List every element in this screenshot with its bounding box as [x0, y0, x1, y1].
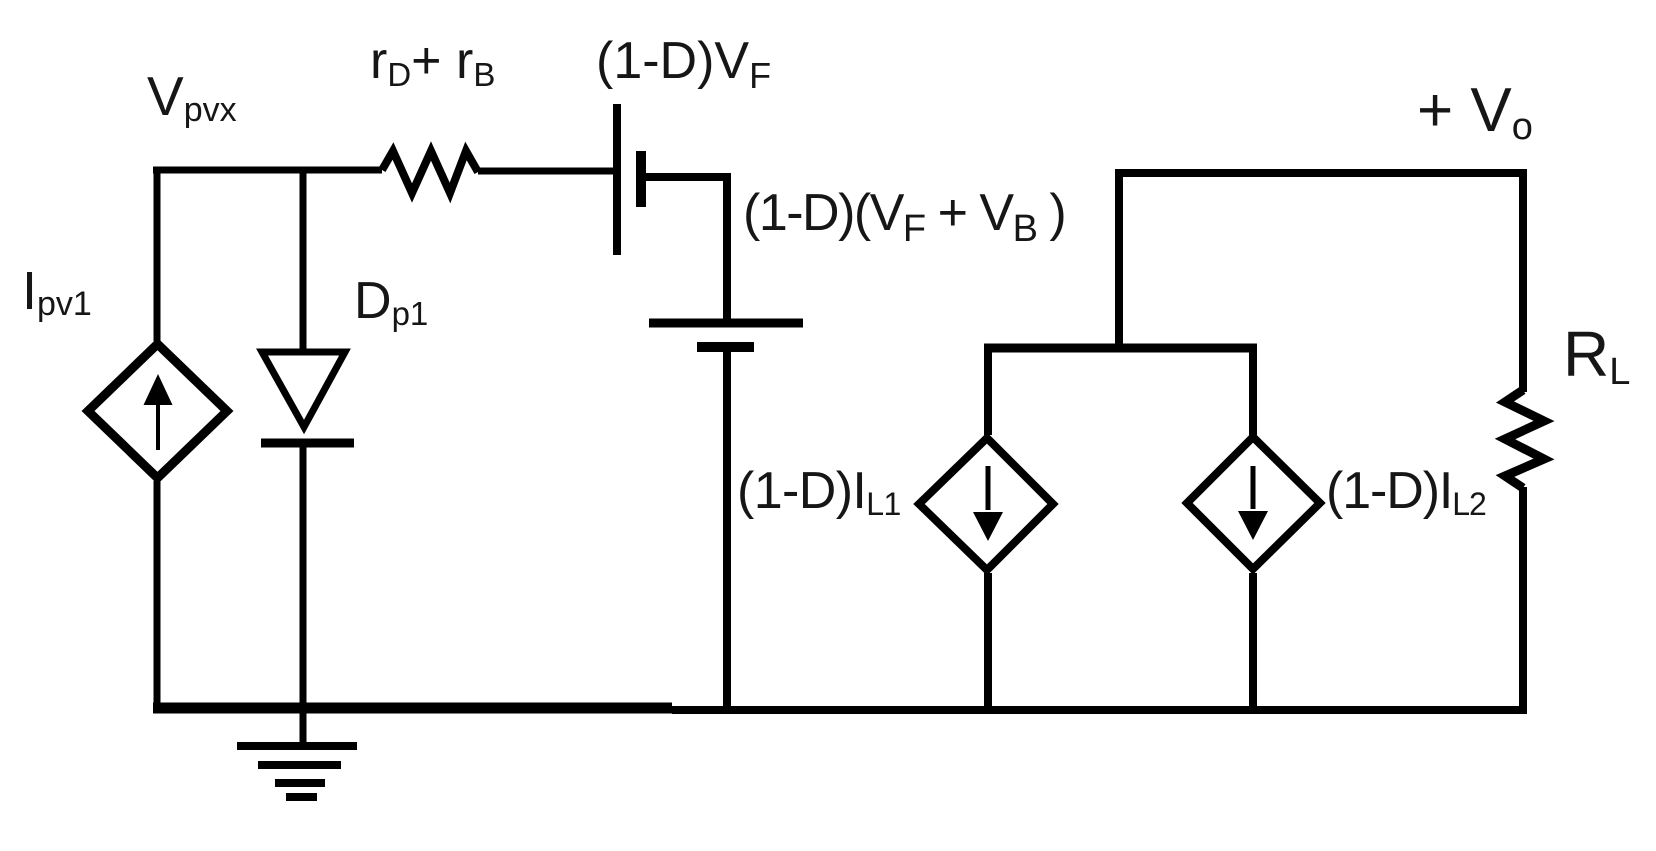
- battery (1-D)(VF+VB) long plate: [649, 319, 803, 328]
- current source Ipv1 (diamond): [88, 344, 227, 478]
- wire bridge: [984, 344, 1257, 353]
- diode Dp1 triangle: [262, 352, 345, 427]
- wire right vertical upper: [1519, 169, 1527, 392]
- diode Dp1 cathode bar: [261, 439, 354, 448]
- wire diode branch upper: [300, 167, 307, 352]
- wire diode branch lower: [300, 443, 307, 711]
- wire top-left rail: [153, 167, 382, 174]
- battery (1-D)VF short plate: [636, 151, 646, 207]
- wire below diamond 1: [984, 573, 992, 712]
- wire corner down: [723, 177, 731, 323]
- arrow of IL1 (down): [986, 466, 991, 510]
- wire battery 2 down to bottom rail: [723, 347, 731, 712]
- battery (1-D)VF long plate: [613, 104, 621, 255]
- arrow of IL2 (down): [1251, 466, 1256, 509]
- wire right branch to diamond: [1249, 348, 1257, 435]
- arrow of Ipv1 (up): [156, 402, 160, 450]
- ground bar 1: [237, 742, 357, 750]
- battery (1-D)(VF+VB) short plate: [697, 342, 754, 352]
- ground bar 4: [286, 793, 317, 801]
- ground bar 2: [258, 761, 341, 769]
- load resistor RL zigzag: [1505, 390, 1544, 488]
- ground stem: [300, 709, 307, 746]
- wire right vertical lower: [1519, 487, 1527, 713]
- wire top-right rail: [1115, 169, 1527, 177]
- wire left vertical lower: [154, 481, 161, 711]
- wire resistor to battery: [478, 168, 614, 175]
- wire center vertical from top rail: [1115, 173, 1123, 348]
- wire below diamond 2: [1249, 573, 1257, 712]
- wire left vertical upper: [154, 167, 161, 341]
- wire left branch to diamond: [984, 348, 992, 435]
- bottom rail left segment: [153, 703, 672, 714]
- wire battery to corner: [641, 173, 731, 181]
- bottom rail right segment: [672, 706, 1527, 714]
- current source (1-D)IL1 (diamond): [919, 438, 1053, 570]
- svg-text:(1-D)VF: (1-D)VF: [596, 32, 771, 96]
- current source (1-D)IL2 (diamond): [1187, 437, 1320, 569]
- ground bar 3: [275, 779, 325, 787]
- resistor rD+rB zigzag: [382, 151, 478, 193]
